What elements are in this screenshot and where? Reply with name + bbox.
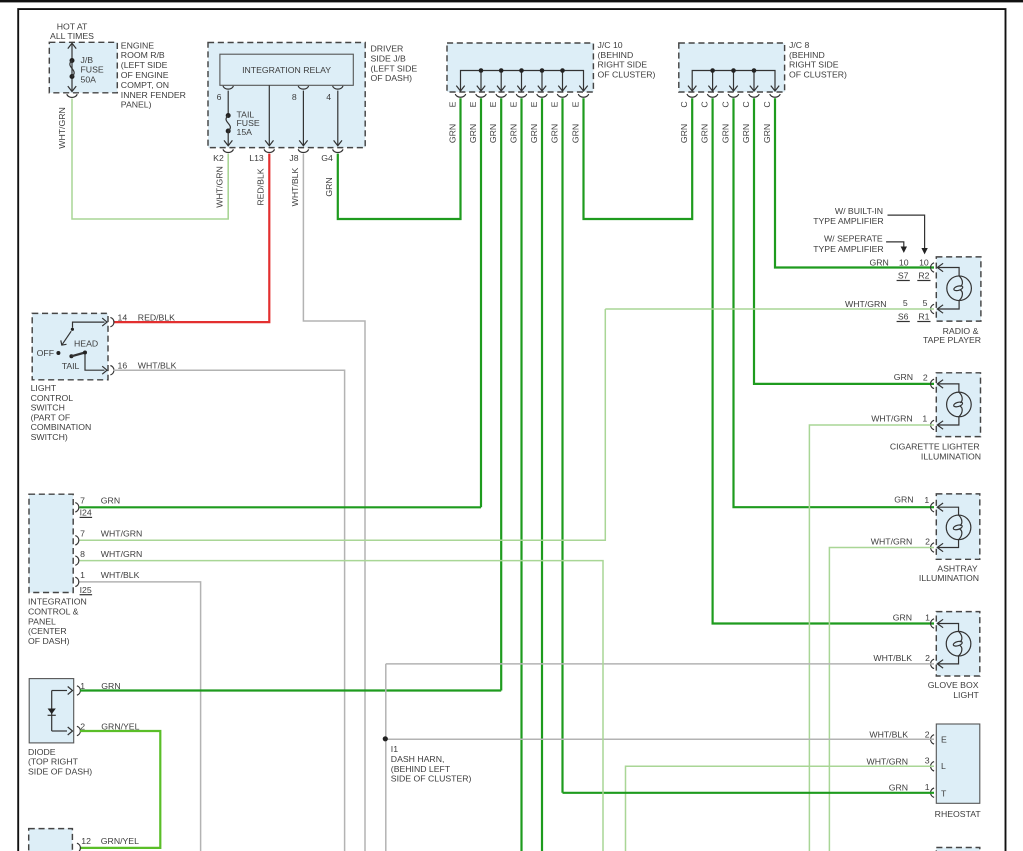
svg-text:2: 2	[923, 372, 928, 382]
svg-text:E: E	[941, 735, 947, 745]
svg-text:E: E	[488, 101, 498, 107]
radio & tape player (dashed box with bulb)	[936, 257, 981, 321]
svg-text:GRN: GRN	[741, 124, 751, 143]
wire E2 GRN down to integration panel pin 7	[480, 98, 482, 507]
svg-text:7: 7	[80, 529, 85, 539]
svg-text:10: 10	[919, 257, 929, 267]
svg-text:5: 5	[923, 298, 928, 308]
relay pin 6 with TAIL FUSE 15A	[223, 86, 233, 89]
junction block Driver Side J/B (dashed box)	[208, 43, 365, 148]
J/C 8 internal bus	[692, 71, 775, 91]
svg-text:(LEFT SIDE: (LEFT SIDE	[371, 63, 418, 73]
svg-text:RED/BLK: RED/BLK	[138, 312, 175, 322]
svg-text:GRN: GRN	[488, 124, 498, 143]
bottom connector box (dashed, cropped)	[29, 829, 73, 851]
wire WHT/BLK from I1 junction to rheostat E	[385, 738, 934, 740]
wire E4 GRN down off page	[520, 98, 522, 851]
svg-text:WHT/BLK: WHT/BLK	[138, 360, 177, 370]
svg-text:ILLUMINATION: ILLUMINATION	[921, 452, 981, 462]
svg-text:WHT/GRN: WHT/GRN	[871, 537, 913, 547]
wire C2 GRN down to glove box light pin 1	[713, 98, 934, 623]
integration control & panel (dashed box)	[29, 494, 73, 592]
svg-text:OF DASH): OF DASH)	[371, 73, 413, 83]
svg-text:1: 1	[924, 495, 929, 505]
svg-text:COMPT, ON: COMPT, ON	[121, 80, 169, 90]
svg-text:C: C	[762, 101, 772, 107]
svg-text:4: 4	[326, 92, 331, 102]
svg-text:7: 7	[80, 496, 85, 506]
svg-text:E: E	[529, 101, 539, 107]
svg-text:SWITCH): SWITCH)	[31, 432, 68, 442]
svg-text:14: 14	[118, 312, 128, 322]
svg-text:WHT/BLK: WHT/BLK	[290, 167, 300, 206]
svg-text:R1: R1	[918, 311, 929, 321]
svg-text:WHT/GRN: WHT/GRN	[101, 529, 143, 539]
svg-text:GRN: GRN	[324, 177, 334, 196]
svg-text:1: 1	[925, 782, 930, 792]
cropped component box bottom right	[936, 848, 980, 851]
connectors under J/B outputs K2 L13 J8 G4	[223, 149, 233, 152]
connectors under J/C 10 pins	[455, 94, 465, 97]
wire WHT/GRN from fuse to K2	[72, 99, 228, 220]
svg-text:(BEHIND: (BEHIND	[789, 50, 825, 60]
svg-text:GRN: GRN	[699, 124, 709, 143]
wire J8 WHT/BLK	[303, 154, 365, 851]
svg-text:50A: 50A	[81, 74, 97, 84]
svg-text:TYPE AMPLIFIER: TYPE AMPLIFIER	[813, 244, 883, 254]
wire GRN/YEL diode pin 2 to bottom connector pin 12	[80, 731, 160, 848]
svg-text:WHT/GRN: WHT/GRN	[871, 413, 913, 423]
svg-text:T: T	[941, 789, 947, 799]
svg-text:CONTROL: CONTROL	[31, 393, 74, 403]
svg-text:3: 3	[925, 756, 930, 766]
wire L13 RED/BLK to light control switch pin 14	[114, 154, 270, 323]
svg-text:WHT/GRN: WHT/GRN	[867, 756, 909, 766]
rheostat (solid box)	[936, 724, 980, 803]
svg-text:TYPE AMPLIFIER: TYPE AMPLIFIER	[813, 216, 883, 226]
wire WHT/GRN integration pin 7 up to radio pin 5	[80, 309, 606, 540]
svg-text:FUSE: FUSE	[81, 65, 104, 75]
svg-text:GRN: GRN	[508, 124, 518, 143]
wire C4 GRN down to cigarette lighter pin 2	[754, 98, 934, 384]
svg-text:R2: R2	[918, 270, 929, 280]
svg-text:ENGINE: ENGINE	[121, 40, 155, 50]
switch internal contacts OFF HEAD TAIL	[73, 322, 105, 328]
svg-text:ALL TIMES: ALL TIMES	[50, 31, 94, 41]
diode symbol	[51, 691, 53, 732]
svg-text:GRN: GRN	[549, 124, 559, 143]
relay pin L13 internal lead	[268, 85, 270, 146]
svg-text:WHT/GRN: WHT/GRN	[57, 107, 67, 149]
svg-text:DRIVER: DRIVER	[371, 44, 404, 54]
svg-text:INTEGRATION: INTEGRATION	[28, 597, 87, 607]
svg-text:G4: G4	[321, 153, 333, 163]
svg-text:2: 2	[925, 653, 930, 663]
svg-text:OF DASH): OF DASH)	[28, 636, 70, 646]
svg-text:(BEHIND: (BEHIND	[598, 50, 634, 60]
svg-text:WHT/GRN: WHT/GRN	[845, 299, 887, 309]
svg-text:I24: I24	[80, 508, 92, 518]
svg-text:INNER FENDER: INNER FENDER	[121, 90, 186, 100]
wire WHT/GRN from cigarette lighter pin 1 down off page	[809, 425, 934, 851]
wire WHT/GRN to rheostat L down off page	[626, 766, 935, 851]
svg-text:GLOVE BOX: GLOVE BOX	[928, 680, 979, 690]
wire E3 GRN down to diode pin 1 junction	[500, 98, 502, 690]
page top border line	[0, 0, 1023, 2]
svg-text:E: E	[468, 101, 478, 107]
svg-text:GRN: GRN	[894, 495, 913, 505]
svg-text:J/C 10: J/C 10	[598, 40, 623, 50]
wire GRN integration pin 7 to E2	[80, 506, 482, 508]
svg-text:OF ENGINE: OF ENGINE	[121, 70, 169, 80]
svg-text:GRN: GRN	[570, 124, 580, 143]
svg-text:E: E	[549, 101, 559, 107]
svg-text:GRN: GRN	[762, 124, 772, 143]
svg-text:SIDE OF DASH): SIDE OF DASH)	[28, 767, 92, 777]
svg-text:DASH HARN,: DASH HARN,	[391, 754, 445, 764]
svg-text:INTEGRATION RELAY: INTEGRATION RELAY	[242, 65, 331, 75]
svg-text:2: 2	[925, 729, 930, 739]
svg-text:SIDE OF CLUSTER): SIDE OF CLUSTER)	[391, 774, 472, 784]
junction block J/B Engine Room R/B (dashed box)	[49, 42, 117, 93]
wire G4 GRN to J/C10 pin E1	[338, 98, 461, 219]
svg-text:COMBINATION: COMBINATION	[31, 422, 92, 432]
switch pin 14 connector	[102, 318, 107, 326]
svg-text:GRN: GRN	[893, 613, 912, 623]
svg-text:L: L	[941, 761, 946, 771]
svg-text:GRN: GRN	[679, 124, 689, 143]
svg-text:OF CLUSTER): OF CLUSTER)	[789, 69, 847, 79]
svg-text:GRN: GRN	[720, 124, 730, 143]
svg-text:12: 12	[81, 836, 91, 846]
wire WHT/BLK integration pin 1 down off page	[80, 582, 201, 851]
svg-text:CIGARETTE LIGHTER: CIGARETTE LIGHTER	[890, 441, 980, 451]
svg-text:GRN: GRN	[869, 257, 888, 267]
svg-text:C: C	[679, 101, 689, 107]
svg-text:HEAD: HEAD	[74, 339, 98, 349]
svg-text:(LEFT SIDE: (LEFT SIDE	[121, 60, 168, 70]
junction connector J/C 10 (dashed box)	[447, 43, 593, 92]
svg-text:PANEL: PANEL	[28, 616, 56, 626]
svg-text:RED/BLK: RED/BLK	[256, 168, 266, 205]
svg-text:J/B: J/B	[81, 55, 94, 65]
relay U1 INTEGRATION RELAY	[220, 54, 353, 85]
svg-text:TAPE PLAYER: TAPE PLAYER	[923, 335, 981, 345]
svg-text:GRN: GRN	[447, 124, 457, 143]
wire E7 GRN to J/C8 pin C1	[584, 98, 693, 219]
connector under fuse box	[67, 94, 77, 97]
svg-text:6: 6	[217, 92, 222, 102]
svg-text:HOT AT: HOT AT	[57, 21, 88, 31]
wire GRN diode pin 1 to E3	[80, 689, 501, 691]
svg-text:16: 16	[118, 360, 128, 370]
svg-text:WHT/BLK: WHT/BLK	[101, 570, 140, 580]
svg-text:SWITCH: SWITCH	[31, 403, 65, 413]
svg-text:J8: J8	[289, 153, 298, 163]
glove box light (dashed box with bulb)	[936, 612, 980, 676]
wire WHT/GRN to radio pin 5	[605, 308, 934, 310]
svg-text:K2: K2	[213, 153, 224, 163]
svg-text:8: 8	[80, 549, 85, 559]
svg-text:W/ SEPERATE: W/ SEPERATE	[824, 234, 883, 244]
svg-text:ROOM R/B: ROOM R/B	[121, 50, 165, 60]
svg-text:GRN: GRN	[468, 124, 478, 143]
junction connector J/C 8 (dashed box)	[679, 43, 785, 92]
J/C 10 internal bus	[461, 71, 584, 91]
wire GRN from E6 to rheostat T	[563, 792, 935, 794]
svg-text:GRN: GRN	[529, 124, 539, 143]
svg-text:E: E	[570, 101, 580, 107]
svg-text:(PART OF: (PART OF	[31, 412, 71, 422]
svg-text:RIGHT SIDE: RIGHT SIDE	[789, 60, 839, 70]
svg-text:DIODE: DIODE	[28, 747, 56, 757]
svg-text:1: 1	[80, 570, 85, 580]
svg-text:(BEHIND LEFT: (BEHIND LEFT	[391, 764, 451, 774]
svg-text:RIGHT SIDE: RIGHT SIDE	[598, 60, 648, 70]
svg-text:LIGHT: LIGHT	[31, 383, 57, 393]
svg-text:PANEL): PANEL)	[121, 100, 152, 110]
svg-text:C: C	[741, 101, 751, 107]
cigarette lighter illumination (dashed box with bulb)	[936, 373, 980, 437]
svg-text:S7: S7	[898, 270, 909, 280]
ashtray illumination (dashed box with bulb)	[936, 494, 980, 559]
svg-text:8: 8	[292, 92, 297, 102]
svg-text:GRN: GRN	[894, 372, 913, 382]
svg-text:WHT/GRN: WHT/GRN	[101, 549, 143, 559]
svg-text:GRN: GRN	[101, 496, 120, 506]
svg-text:C: C	[699, 101, 709, 107]
svg-text:W/ BUILT-IN: W/ BUILT-IN	[835, 206, 883, 216]
wire E5 GRN down off page	[541, 98, 543, 851]
svg-text:S6: S6	[898, 311, 909, 321]
svg-text:1: 1	[925, 613, 930, 623]
relay pin 8	[298, 86, 308, 89]
wire WHT/BLK dash harness vertical through I1	[385, 664, 387, 851]
wire WHT/BLK from I1 harness to glove box pin 2	[386, 663, 934, 665]
wire WHT/GRN from ashtray pin 2 down off page	[829, 548, 934, 851]
svg-text:TAIL: TAIL	[62, 361, 80, 371]
svg-text:10: 10	[899, 257, 909, 267]
svg-text:ILLUMINATION: ILLUMINATION	[919, 573, 979, 583]
wire C5 GRN down to radio pin 10	[775, 98, 934, 267]
switch pin 16 connector	[102, 366, 107, 374]
svg-text:GRN/YEL: GRN/YEL	[101, 836, 139, 846]
svg-text:LIGHT: LIGHT	[953, 690, 979, 700]
svg-text:C: C	[720, 101, 730, 107]
svg-text:J/C 8: J/C 8	[789, 40, 809, 50]
svg-text:ASHTRAY: ASHTRAY	[937, 563, 978, 573]
svg-text:GRN: GRN	[889, 782, 908, 792]
diode D1 (solid box)	[29, 679, 73, 743]
connectors under J/C 8 pins	[687, 94, 697, 97]
svg-text:WHT/BLK: WHT/BLK	[869, 729, 908, 739]
relay pin 4	[333, 86, 343, 89]
svg-text:15A: 15A	[237, 127, 253, 137]
switch S1 light control switch (dashed box)	[32, 313, 108, 379]
svg-text:CONTROL &: CONTROL &	[28, 607, 79, 617]
svg-text:(TOP RIGHT: (TOP RIGHT	[28, 757, 79, 767]
svg-text:OFF: OFF	[37, 348, 54, 358]
svg-text:WHT/BLK: WHT/BLK	[873, 653, 912, 663]
wire WHT/GRN integration pin 8 down off page	[80, 561, 604, 851]
svg-text:OF CLUSTER): OF CLUSTER)	[598, 69, 656, 79]
svg-text:L13: L13	[249, 153, 264, 163]
svg-text:(CENTER: (CENTER	[28, 626, 67, 636]
svg-text:2: 2	[925, 537, 930, 547]
svg-text:E: E	[508, 101, 518, 107]
svg-text:I25: I25	[80, 585, 92, 595]
wire WHT/BLK from switch pin 16 down off page	[114, 370, 345, 851]
svg-text:5: 5	[903, 298, 908, 308]
svg-text:RHEOSTAT: RHEOSTAT	[935, 809, 982, 819]
svg-text:1: 1	[922, 414, 927, 424]
wire K2 WHT/GRN	[227, 154, 229, 219]
svg-text:I1: I1	[391, 744, 398, 754]
wire C3 GRN down to ashtray illumination pin 1	[734, 98, 935, 507]
fuse J/B FUSE 50A	[71, 44, 73, 92]
svg-text:WHT/GRN: WHT/GRN	[215, 166, 225, 208]
wire E6 GRN down to rheostat T	[561, 98, 563, 793]
svg-text:E: E	[447, 101, 457, 107]
junction I1 dot	[383, 736, 388, 741]
svg-text:SIDE J/B: SIDE J/B	[371, 53, 406, 63]
